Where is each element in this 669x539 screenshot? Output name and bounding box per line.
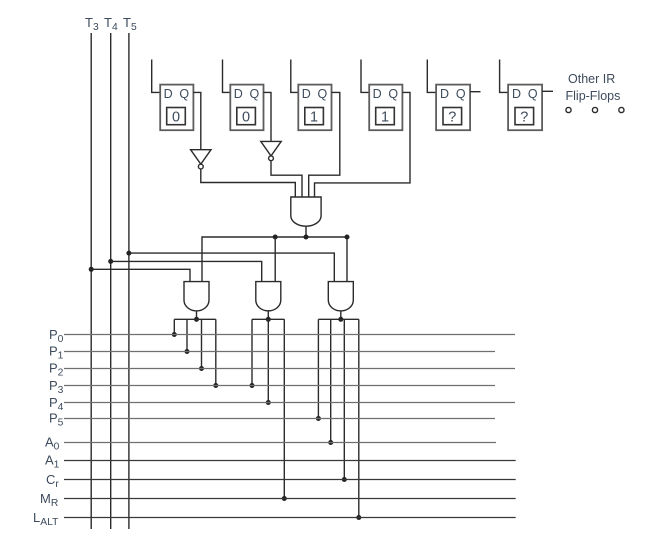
- node junction on P1: [185, 349, 190, 354]
- wire G6 tap to A0: [330, 319, 332, 442]
- svg-text:Flip-Flops: Flip-Flops: [566, 89, 621, 103]
- wire G5 tap to P4: [267, 319, 269, 402]
- node junction on A0: [328, 440, 333, 445]
- wire U1 clock input: [152, 60, 161, 93]
- wire T3 vertical: [90, 33, 92, 529]
- wire U3 clock input: [291, 60, 299, 93]
- node ellipsis circle 2: [592, 107, 597, 112]
- wire P2 line: [64, 368, 515, 370]
- flip-flop U1 (IR bit, value 0): [152, 60, 194, 131]
- wire bus to gate2 right input: [274, 237, 276, 282]
- flip-flop U3 (IR bit, value 1): [291, 60, 332, 131]
- node junction on P3 (G5): [250, 383, 255, 388]
- wire G6 tap to LALT: [358, 319, 360, 517]
- node junction G5 output bar: [266, 317, 271, 322]
- wire G5 fanout bar: [252, 318, 284, 320]
- svg-text:Q: Q: [528, 87, 538, 101]
- flip-flop U4 (IR bit, value 1): [361, 60, 402, 131]
- wire G5 tap to MR: [283, 319, 285, 498]
- wire G4 tap to P1: [186, 319, 188, 351]
- wire U4 Q output to AND input 4: [315, 92, 411, 197]
- wire G6 fanout bar: [318, 318, 358, 320]
- wire T4 to gate5 left input: [111, 261, 262, 282]
- node junction on P4: [266, 400, 271, 405]
- AND gate G5 (T4 strobe): [256, 282, 281, 311]
- node ellipsis circle 1: [566, 107, 571, 112]
- wire G6 output: [340, 311, 342, 320]
- node junction on LALT: [356, 515, 361, 520]
- svg-text:0: 0: [242, 110, 250, 126]
- wire U2 Q output to inverter: [264, 92, 272, 141]
- svg-text:0: 0: [172, 110, 180, 126]
- wire U3 Q output to AND input 3: [309, 92, 340, 197]
- svg-text:D: D: [440, 87, 449, 101]
- svg-text:Q: Q: [456, 87, 466, 101]
- wire U6 Q stub: [542, 90, 553, 92]
- svg-text:?: ?: [448, 110, 456, 126]
- svg-text:D: D: [302, 87, 311, 101]
- wire inverter G1 output to AND input 1: [201, 169, 295, 197]
- svg-text:Q: Q: [250, 87, 260, 101]
- AND gate G3 (4-input decoder AND): [291, 197, 321, 226]
- AND gate G6 (T5 strobe): [328, 282, 353, 311]
- wire P1 line: [64, 351, 495, 353]
- svg-text:Q: Q: [179, 87, 189, 101]
- svg-text:D: D: [234, 87, 243, 101]
- node junction bus to gate3: [345, 235, 350, 240]
- inverter G2 (NOT): [261, 141, 281, 160]
- svg-text:Other IR: Other IR: [568, 72, 615, 86]
- wire LALT line: [64, 517, 516, 519]
- wire decode bus (AND output distribution): [202, 237, 347, 282]
- node ellipsis circle 3: [619, 107, 624, 112]
- wire G4 fanout bar: [174, 318, 216, 320]
- wire P4 line: [64, 402, 515, 404]
- node junction on P0: [172, 332, 177, 337]
- wire A1 line: [64, 460, 516, 462]
- svg-text:D: D: [164, 87, 173, 101]
- wire U2 clock input: [223, 60, 231, 93]
- wire G5 tap to P3: [251, 319, 253, 385]
- wire P3 line: [64, 385, 495, 387]
- wire T5 to gate6 left input: [129, 253, 334, 282]
- flip-flop U6 (IR bit, value ?): [500, 60, 542, 131]
- wire G4 output: [196, 311, 198, 320]
- wire T5 vertical: [128, 33, 130, 529]
- node junction on P2: [199, 366, 204, 371]
- node junction on Cr: [342, 477, 347, 482]
- wire T3 to gate4 left input: [91, 269, 190, 282]
- flip-flop U5 (IR bit, value ?): [427, 60, 470, 131]
- wire G4 tap to P0: [173, 319, 175, 334]
- inverter G1 (NOT): [191, 150, 211, 169]
- svg-text:Q: Q: [388, 87, 398, 101]
- wire U5 clock input: [427, 60, 436, 93]
- wire MR line: [64, 498, 516, 500]
- svg-text:1: 1: [310, 110, 318, 126]
- wire T4 vertical: [110, 33, 112, 529]
- node junction bus to gate2: [273, 235, 278, 240]
- svg-text:?: ?: [520, 110, 528, 126]
- wire inverter G2 output to AND input 2: [271, 161, 302, 197]
- node junction on P5: [316, 416, 321, 421]
- node junction on T3: [89, 267, 94, 272]
- wire U1 Q output to inverter: [193, 92, 200, 149]
- AND gate G4 (T3 strobe): [184, 282, 209, 311]
- wire U4 clock input: [361, 60, 369, 93]
- svg-text:D: D: [373, 87, 382, 101]
- wire G4 tap to P2: [201, 319, 203, 368]
- wire G4 tap to P3: [215, 319, 217, 385]
- svg-text:D: D: [512, 87, 521, 101]
- node junction on MR: [282, 496, 287, 501]
- node junction on T5: [126, 251, 131, 256]
- wire G5 output: [267, 311, 269, 320]
- wire U5 Q stub: [470, 91, 480, 93]
- wire G3 output: [305, 226, 307, 237]
- wire U6 clock input: [500, 60, 509, 93]
- node junction AND output on bus: [304, 235, 309, 240]
- flip-flop U2 (IR bit, value 0): [223, 60, 264, 131]
- wire G6 tap to Cr: [343, 319, 345, 479]
- svg-text:Q: Q: [318, 87, 328, 101]
- node junction G4 output bar: [194, 317, 199, 322]
- wire G6 tap to P5: [317, 319, 319, 418]
- node junction G6 output bar: [338, 317, 343, 322]
- wire A0 line: [64, 442, 496, 444]
- wire Cr line: [64, 479, 516, 481]
- wire P0 line: [64, 334, 515, 336]
- wire P5 line: [64, 418, 495, 420]
- node junction on T4: [108, 259, 113, 264]
- svg-text:1: 1: [381, 110, 389, 126]
- node junction on P3 (G4): [213, 383, 218, 388]
